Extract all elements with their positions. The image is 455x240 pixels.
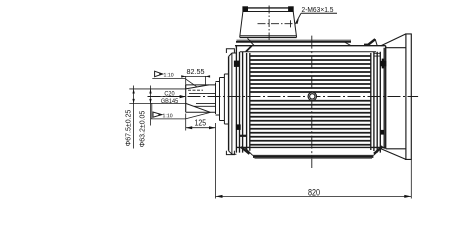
svg-text:1:10: 1:10 (162, 113, 172, 119)
fins of motor frame (250, 56, 371, 145)
horizontal centerline (148, 96, 419, 98)
taper flag upper (155, 71, 163, 77)
shaft outline (185, 85, 187, 112)
taper flag lower (153, 112, 162, 117)
svg-text:2-M63×1.5: 2-M63×1.5 (302, 7, 334, 14)
svg-text:125: 125 (194, 118, 206, 128)
frame top-right black tab (364, 44, 369, 46)
right ring top steps (375, 53, 381, 56)
end shield bottom lug (226, 151, 234, 155)
svg-text:82.55: 82.55 (186, 67, 204, 76)
svg-text:Φ63.2±0.05: Φ63.2±0.05 (139, 111, 146, 148)
dim 82.55 (186, 76, 206, 89)
frame left end ring (236, 46, 249, 153)
end shield (drive end) (228, 57, 230, 151)
shaft inner line a (196, 102, 216, 104)
terminal box vertical centerline (268, 6, 270, 42)
svg-text:Φ67.5±0.25: Φ67.5±0.25 (126, 110, 133, 147)
svg-text:820: 820 (308, 188, 320, 198)
svg-text:1:10: 1:10 (163, 73, 173, 79)
dia 63.2 dim line (150, 86, 152, 126)
frame right end ring (371, 46, 386, 153)
shaft inner line b (194, 105, 215, 107)
terminal box corner bolts (242, 6, 248, 11)
svg-text:GB145: GB145 (161, 99, 179, 105)
shaft keyway line (189, 93, 216, 95)
terminal box (240, 8, 297, 38)
frame bottom outline (236, 146, 385, 148)
shaft taper bottom (186, 103, 210, 112)
frame bolts (234, 61, 240, 67)
svg-text:C20: C20 (164, 91, 175, 97)
shaft taper top (186, 85, 209, 89)
terminal box horizontal centerline (258, 23, 297, 25)
dia 67.5 dim line (133, 86, 135, 149)
frame bottom corner chamfers (241, 147, 250, 154)
dia dims extension lines (129, 89, 185, 103)
dim 125 (185, 114, 187, 131)
label 2-M63x1.5 leader (296, 13, 337, 23)
frame top outline (235, 45, 386, 47)
dim 820 (410, 159, 412, 198)
C20/GB145 leader (156, 96, 184, 98)
frame top-left chamfer (246, 46, 252, 52)
center grease plug double circle (308, 92, 316, 100)
extension tick x151.8 (151, 103, 153, 119)
shaft keyway hidden line (188, 89, 203, 91)
left ring tick (239, 135, 247, 137)
bearing hub rings (216, 74, 229, 124)
end shield top lug (226, 49, 234, 53)
cable gland tick (290, 20, 292, 27)
terminal box platform (237, 39, 352, 41)
fan cowl (381, 34, 406, 48)
vertical centerline (311, 36, 313, 168)
